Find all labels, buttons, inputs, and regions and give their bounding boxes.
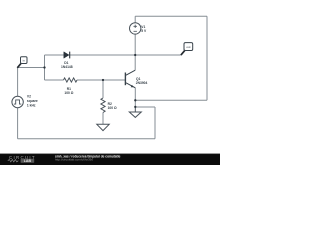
transistor Q1: [125, 70, 135, 88]
wire out flag horizontal: [135, 54, 181, 56]
voltage source V1: [130, 23, 141, 34]
label V2 value: [27, 95, 38, 108]
net flag out: [181, 43, 193, 56]
label R1 value: [64, 87, 73, 95]
wire top rail: [135, 15, 207, 17]
wire right-lower vertical: [154, 107, 156, 139]
wire left vertical lower (V2 bottom to bottom-left corner): [17, 108, 19, 139]
ground (below R2): [97, 124, 109, 130]
watermark title text: [55, 155, 121, 162]
watermark bar: [0, 154, 220, 166]
node junction emitter / bottom loop: [134, 106, 136, 108]
wire diode rail: [45, 54, 136, 56]
resistor R1: [64, 78, 78, 82]
label V1 value: [141, 25, 147, 33]
node junction emitter / top loop: [134, 99, 136, 101]
wire ladder left vertical: [44, 55, 46, 80]
svg-text:LAB: LAB: [24, 159, 32, 163]
svg-text:in: in: [23, 58, 26, 62]
svg-text:100 Ω: 100 Ω: [108, 106, 117, 110]
label Q1 value: [136, 77, 148, 85]
svg-text:100 Ω: 100 Ω: [64, 91, 73, 95]
svg-text:http://circuitlab.com/c6hx39u: http://circuitlab.com/c6hx39u: [55, 158, 93, 162]
svg-text:2N3904: 2N3904: [136, 81, 148, 85]
wire R2 stem top: [102, 80, 104, 98]
wire emitter vertical: [134, 88, 136, 107]
watermark logo CIRCUIT LAB: [8, 155, 36, 163]
svg-text:out: out: [186, 45, 190, 49]
wire collector vertical: [134, 55, 136, 70]
wire bottom rail: [18, 138, 155, 140]
ground (emitter): [129, 107, 141, 117]
label R2 value: [108, 102, 117, 110]
node junction collector / V1 / out: [134, 54, 136, 56]
voltage source V2 square: [12, 96, 23, 107]
wire V1 top stub: [134, 16, 136, 23]
wire emitter top horizontal: [135, 99, 207, 101]
wire left vertical upper (in corner to V2 top): [17, 68, 19, 97]
node junction R1 / R2: [102, 79, 104, 81]
wire R1 rail right to base: [77, 79, 125, 81]
wire V1 bottom stub to collector node: [134, 34, 136, 55]
svg-text:5 V: 5 V: [141, 29, 147, 33]
label D1 value: [61, 61, 73, 69]
net flag in: [17, 57, 27, 68]
svg-text:1N4148: 1N4148: [61, 65, 73, 69]
wire R2 stem bottom: [102, 113, 104, 125]
resistor R2: [101, 98, 105, 113]
wire in flag horizontal: [18, 67, 45, 69]
wire right edge vertical: [206, 16, 208, 100]
svg-text:1 kHz: 1 kHz: [27, 103, 36, 107]
node junction in-wire / ladder: [43, 66, 45, 68]
wire R1 rail left: [45, 79, 64, 81]
diode D1: [64, 52, 70, 59]
wire emitter to lower loop: [135, 106, 155, 108]
